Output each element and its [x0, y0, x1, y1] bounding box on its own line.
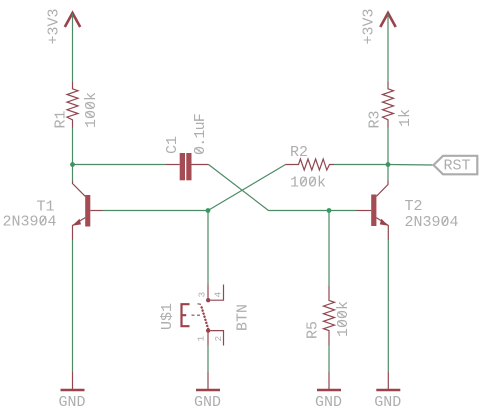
- node A junction: [206, 208, 211, 213]
- svg-text:U$1: U$1: [159, 303, 176, 330]
- U$1 actuator link (dashed): [192, 314, 201, 316]
- wire node B2 to RST flag: [388, 164, 434, 167]
- wire T1 collector up to node A0: [72, 165, 74, 182]
- GND pin lead: [387, 372, 389, 389]
- label 100k (R1): [83, 92, 100, 128]
- node A0 junction: [70, 162, 75, 167]
- wire R2 to node B2: [334, 164, 388, 166]
- wire C1 to T2 base net (diagonal + horizontal): [209, 165, 357, 211]
- svg-text:100k: 100k: [83, 92, 100, 128]
- svg-text:C1: C1: [164, 136, 181, 154]
- supply +3V3 left: [65, 13, 80, 27]
- svg-text:R5: R5: [305, 321, 322, 339]
- T2 collector lead: [376, 181, 388, 197]
- svg-text:100k: 100k: [335, 301, 352, 337]
- svg-text:4: 4: [213, 292, 224, 298]
- net flag RST: [434, 156, 478, 175]
- svg-text:T2: T2: [405, 198, 423, 215]
- svg-text:BTN: BTN: [235, 304, 252, 331]
- node B junction: [327, 208, 332, 213]
- svg-text:0.1uF: 0.1uF: [192, 114, 209, 155]
- U$1 pin 3 lead: [207, 285, 209, 299]
- wire T1 emitter down: [72, 240, 74, 372]
- U$1 bottom contact: [206, 328, 210, 332]
- GND pin lead: [72, 372, 74, 389]
- GND bar: [317, 389, 341, 392]
- wire node B down to R5: [328, 211, 330, 287]
- C1 right plate: [186, 153, 191, 180]
- wire node A to R2 (diagonal): [208, 165, 286, 211]
- wire R3 to node B2: [387, 128, 389, 165]
- svg-text:100k: 100k: [290, 174, 326, 191]
- GND pin lead: [207, 372, 209, 389]
- supply +3V3 right: [380, 13, 395, 27]
- RST flag outline: [434, 156, 478, 175]
- GND pin lead: [328, 372, 330, 389]
- T2 base bar: [371, 195, 376, 227]
- pushbutton U$1: [181, 285, 224, 346]
- wire node B2 down to T2 collector: [387, 165, 389, 182]
- ground (T2 emitter): [374, 372, 401, 410]
- label 100k (R2): [290, 174, 326, 191]
- wire T2 emitter down: [387, 240, 389, 372]
- T1 collector lead: [73, 181, 86, 197]
- label 0.1uF: [192, 114, 209, 155]
- ground (button): [194, 372, 221, 410]
- T1 emitter arrow: [72, 219, 81, 226]
- svg-text:GND: GND: [58, 394, 85, 410]
- wire R5 to GND: [328, 346, 330, 373]
- C1 pin 2 lead: [192, 164, 209, 166]
- svg-text:2: 2: [213, 336, 224, 342]
- label 2N3904 (T1): [2, 214, 56, 231]
- U$1 pin 4 lead: [211, 285, 224, 301]
- wire node A down to button: [207, 211, 209, 285]
- svg-text:3: 3: [197, 292, 208, 298]
- svg-text:1k: 1k: [397, 109, 414, 127]
- resistor R2: [286, 159, 335, 170]
- svg-text:+3V3: +3V3: [46, 8, 63, 44]
- wire node A0 to C1: [73, 164, 167, 166]
- U$1 pin 2 lead: [211, 331, 224, 346]
- U$1 pin 1 lead: [207, 333, 209, 346]
- svg-text:R1: R1: [53, 110, 70, 128]
- T1 base bar: [85, 195, 90, 227]
- svg-text:RST: RST: [444, 158, 471, 175]
- C1 left plate: [180, 153, 185, 180]
- wire T1 base to node A: [103, 210, 209, 212]
- GND bar: [196, 389, 220, 392]
- C1 pin 1 lead: [166, 164, 180, 166]
- svg-text:GND: GND: [194, 394, 221, 410]
- wire supply-right to R3: [387, 14, 389, 82]
- svg-text:GND: GND: [374, 394, 401, 410]
- wire supply-left to R1: [72, 14, 74, 82]
- U$1 lever end tick: [198, 303, 202, 306]
- T2 emitter lead: [376, 218, 388, 240]
- node B2 junction: [386, 162, 391, 167]
- resistor R1: [67, 82, 78, 128]
- resistor R5: [324, 286, 335, 346]
- T2 base lead: [357, 210, 372, 212]
- GND bar: [61, 389, 85, 392]
- U$1 top contact: [206, 298, 210, 302]
- T2 emitter arrow: [380, 219, 389, 226]
- svg-text:2N3904: 2N3904: [405, 214, 459, 231]
- transistor T2: [357, 181, 389, 240]
- svg-text:+3V3: +3V3: [361, 8, 378, 44]
- ground (R5): [315, 372, 342, 410]
- ground (T1 emitter): [58, 372, 85, 410]
- svg-text:2N3904: 2N3904: [2, 214, 56, 231]
- svg-text:R3: R3: [367, 110, 384, 128]
- label 2N3904 (T2): [405, 214, 459, 231]
- transistor T1: [72, 181, 102, 240]
- label 100k (R5): [335, 301, 352, 337]
- svg-text:GND: GND: [315, 394, 342, 410]
- U$1 switch lever (dotted): [201, 305, 208, 330]
- wire R1 to node A0: [72, 128, 74, 165]
- GND bar: [376, 389, 400, 392]
- resistor R3: [383, 82, 394, 128]
- T1 base lead: [90, 210, 102, 212]
- wire button pin1 to GND: [207, 346, 209, 373]
- capacitor C1: [166, 153, 209, 180]
- T1 emitter lead: [73, 218, 86, 240]
- svg-text:1: 1: [196, 336, 207, 342]
- svg-text:R2: R2: [290, 144, 308, 161]
- U$1 actuator: [181, 303, 190, 327]
